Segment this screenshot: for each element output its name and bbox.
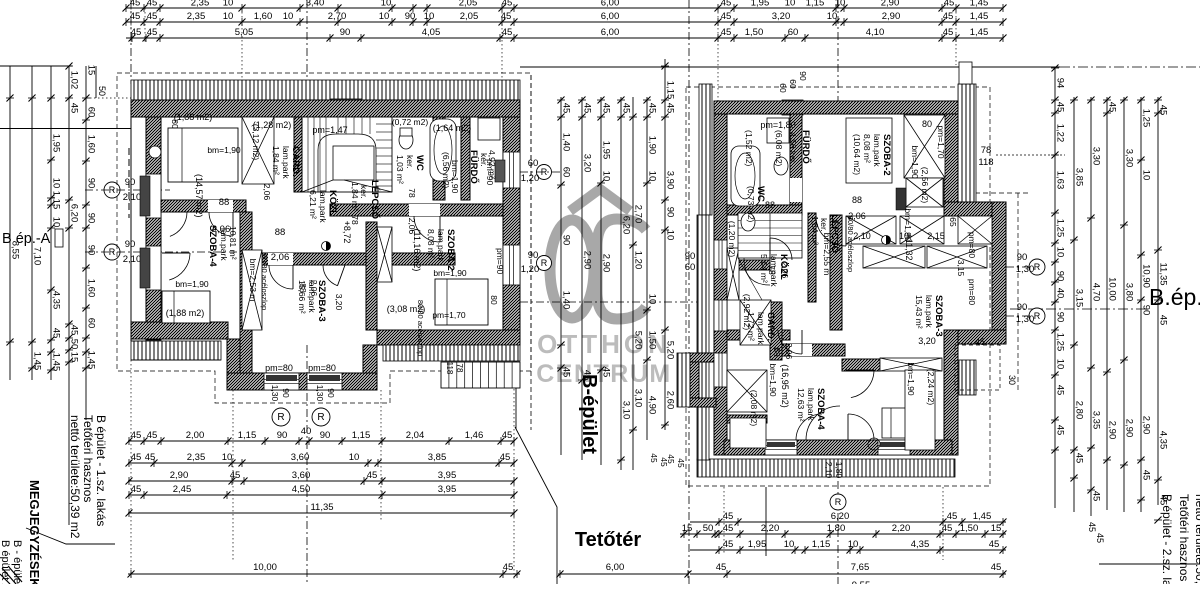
svg-text:3,90: 3,90 (665, 171, 676, 190)
svg-text:15,43 m²: 15,43 m² (914, 295, 924, 329)
svg-text:10: 10 (1055, 359, 1066, 370)
svg-text:7,10: 7,10 (32, 247, 43, 266)
svg-text:90: 90 (528, 250, 539, 261)
svg-text:3,15: 3,15 (956, 260, 966, 277)
svg-text:R: R (1034, 311, 1041, 321)
svg-text:45: 45 (230, 470, 241, 481)
svg-text:45: 45 (1055, 385, 1066, 396)
svg-text:2,90: 2,90 (1141, 416, 1152, 435)
svg-text:88: 88 (219, 197, 230, 208)
svg-text:45: 45 (601, 103, 612, 114)
svg-text:1,22: 1,22 (1055, 124, 1066, 143)
svg-text:1,20: 1,20 (521, 173, 540, 184)
svg-text:90: 90 (1055, 312, 1066, 323)
svg-text:1,25: 1,25 (1141, 109, 1152, 128)
svg-text:8,08 m²: 8,08 m² (862, 134, 872, 163)
svg-text:(11,16 m2): (11,16 m2) (412, 229, 422, 272)
svg-text:1,80: 1,80 (834, 462, 844, 479)
svg-text:bm=2,53 m: bm=2,53 m (248, 259, 258, 302)
svg-text:lam.park: lam.park (872, 134, 882, 167)
svg-text:45: 45 (666, 454, 676, 464)
svg-text:94: 94 (1055, 78, 1066, 89)
svg-text:45: 45 (502, 27, 513, 38)
svg-text:(3,08 m2): (3,08 m2) (387, 304, 426, 314)
svg-text:4,35: 4,35 (51, 291, 62, 310)
svg-text:3,85: 3,85 (428, 452, 447, 463)
svg-text:1,84 m²: 1,84 m² (350, 182, 360, 211)
svg-text:4,56 ker.: 4,56 ker. (788, 132, 798, 165)
svg-text:10: 10 (848, 539, 859, 550)
svg-text:2,05: 2,05 (459, 0, 478, 9)
svg-text:bm=1,90: bm=1,90 (903, 208, 913, 242)
svg-text:LÉPCSŐ: LÉPCSŐ (369, 180, 381, 219)
svg-text:10: 10 (827, 11, 838, 22)
svg-text:6,20: 6,20 (69, 204, 80, 223)
svg-text:(1,88 m2): (1,88 m2) (166, 308, 205, 318)
svg-text:4,70: 4,70 (1091, 283, 1102, 302)
svg-text:2,06: 2,06 (212, 224, 231, 235)
svg-text:45: 45 (1107, 102, 1118, 113)
svg-text:1,95: 1,95 (601, 141, 612, 160)
svg-text:40: 40 (301, 426, 312, 437)
svg-text:45: 45 (1055, 102, 1066, 113)
svg-text:1,20: 1,20 (521, 264, 540, 275)
svg-text:45: 45 (69, 103, 80, 114)
svg-text:(6,56 m2): (6,56 m2) (441, 152, 451, 189)
svg-text:4,35: 4,35 (1158, 431, 1169, 450)
svg-text:MEGJEGYZÉSEK:: MEGJEGYZÉSEK: (27, 480, 42, 584)
svg-text:1,50: 1,50 (745, 27, 764, 38)
svg-text:1,40: 1,40 (561, 133, 572, 152)
svg-text:2,90: 2,90 (881, 0, 900, 9)
svg-text:2,90: 2,90 (882, 11, 901, 22)
svg-text:(0,72 m2): (0,72 m2) (392, 117, 429, 127)
svg-text:(2,56 m2): (2,56 m2) (920, 167, 930, 204)
svg-text:45: 45 (1141, 470, 1152, 481)
svg-text:45: 45 (944, 0, 955, 9)
svg-text:1,40: 1,40 (561, 291, 572, 310)
svg-text:1,46: 1,46 (465, 430, 484, 441)
svg-text:90: 90 (1055, 271, 1066, 282)
svg-text:2,35: 2,35 (187, 452, 206, 463)
svg-text:2,90: 2,90 (601, 254, 612, 273)
svg-text:118: 118 (978, 157, 993, 168)
svg-text:45: 45 (561, 367, 572, 378)
svg-text:5,20: 5,20 (633, 331, 644, 350)
svg-text:3,20: 3,20 (334, 294, 344, 311)
svg-text:88: 88 (275, 227, 286, 238)
svg-text:R: R (1034, 262, 1041, 272)
svg-text:45: 45 (500, 452, 511, 463)
svg-text:10: 10 (379, 11, 390, 22)
svg-text:45: 45 (1158, 315, 1169, 326)
svg-text:2,90: 2,90 (582, 251, 593, 270)
svg-text:7,65: 7,65 (851, 562, 870, 573)
svg-text:1,80: 1,80 (827, 523, 846, 534)
svg-text:45: 45 (721, 27, 732, 38)
svg-text:45: 45 (131, 452, 142, 463)
svg-text:90: 90 (340, 27, 351, 38)
svg-text:45: 45 (1158, 105, 1169, 116)
svg-text:ker.: ker. (405, 155, 415, 169)
svg-text:45: 45 (502, 430, 513, 441)
svg-text:(3,12 m2): (3,12 m2) (251, 124, 261, 161)
svg-text:5,05: 5,05 (235, 27, 254, 38)
svg-text:10: 10 (647, 171, 658, 182)
svg-text:10: 10 (424, 11, 435, 22)
svg-text:2,10: 2,10 (824, 462, 834, 479)
svg-text:6,20: 6,20 (831, 511, 850, 522)
svg-text:1,95: 1,95 (748, 539, 767, 550)
svg-text:(6,08 m2): (6,08 m2) (774, 130, 784, 167)
svg-text:10: 10 (1055, 247, 1066, 258)
svg-text:3,60: 3,60 (292, 470, 311, 481)
svg-text:9,55: 9,55 (852, 580, 871, 584)
svg-text:90: 90 (125, 177, 136, 188)
svg-text:45: 45 (975, 337, 985, 347)
svg-text:45: 45 (1087, 522, 1097, 532)
svg-text:118: 118 (445, 362, 454, 375)
svg-text:45: 45 (147, 11, 158, 22)
svg-text:2,06: 2,06 (271, 252, 290, 263)
svg-text:90: 90 (405, 11, 416, 22)
svg-text:10: 10 (1141, 170, 1152, 181)
svg-text:3,15: 3,15 (1074, 289, 1085, 308)
svg-text:88: 88 (772, 347, 782, 357)
svg-text:(2,08 m2): (2,08 m2) (749, 390, 759, 427)
svg-text:6,00: 6,00 (601, 0, 620, 9)
svg-text:10: 10 (223, 0, 234, 9)
svg-text:4,50: 4,50 (292, 484, 311, 495)
svg-text:1,15: 1,15 (238, 430, 257, 441)
svg-text:lam.park: lam.park (436, 229, 446, 262)
svg-text:B épület - 1.sz. lakás: B épület - 1.sz. lakás (94, 415, 108, 526)
svg-text:pm=80: pm=80 (308, 363, 336, 373)
svg-text:4,10: 4,10 (866, 27, 885, 38)
svg-text:1,50: 1,50 (960, 523, 979, 534)
svg-text:40: 40 (1055, 288, 1066, 299)
svg-text:45: 45 (721, 11, 732, 22)
svg-text:1,95: 1,95 (51, 134, 62, 153)
svg-text:45: 45 (665, 103, 676, 114)
svg-text:90: 90 (86, 178, 97, 189)
svg-text:45: 45 (621, 103, 632, 114)
svg-text:90: 90 (320, 430, 331, 441)
svg-text:R: R (541, 258, 548, 268)
svg-text:88: 88 (852, 195, 862, 205)
svg-text:1,45: 1,45 (970, 11, 989, 22)
svg-text:pm=80: pm=80 (967, 279, 977, 305)
svg-text:(1,52 m2): (1,52 m2) (744, 130, 754, 167)
svg-text:(1,20 m2): (1,20 m2) (727, 221, 737, 258)
svg-text:pm=90: pm=90 (495, 248, 505, 274)
svg-text:45: 45 (601, 367, 612, 378)
svg-text:1,45: 1,45 (970, 27, 989, 38)
svg-text:88: 88 (298, 283, 308, 293)
svg-text:(2,24 m2): (2,24 m2) (926, 369, 936, 406)
svg-text:45: 45 (131, 27, 142, 38)
svg-text:10: 10 (223, 11, 234, 22)
svg-text:10: 10 (349, 452, 360, 463)
svg-text:45: 45 (943, 11, 954, 22)
svg-text:lam.park: lam.park (924, 295, 934, 328)
svg-text:pm=90: pm=90 (485, 159, 495, 185)
svg-text:80: 80 (922, 119, 932, 129)
svg-text:5,20: 5,20 (665, 341, 676, 360)
svg-text:2,45: 2,45 (173, 484, 192, 495)
svg-text:1,60: 1,60 (86, 279, 97, 298)
svg-text:10,00: 10,00 (253, 562, 277, 573)
svg-text:45: 45 (69, 325, 80, 336)
svg-text:(1,64 m2): (1,64 m2) (433, 123, 472, 133)
svg-text:bm=1,90: bm=1,90 (906, 362, 916, 396)
svg-text:B épület - 2.sz. lakás: B épület - 2.sz. lakás (1160, 494, 1174, 584)
svg-text:60: 60 (561, 167, 572, 178)
svg-text:90: 90 (798, 71, 808, 81)
svg-text:90: 90 (561, 235, 572, 246)
svg-text:1,84 m²: 1,84 m² (810, 216, 820, 245)
svg-text:3,80: 3,80 (1124, 283, 1135, 302)
svg-text:1,15: 1,15 (51, 191, 62, 210)
svg-text:3,95: 3,95 (438, 484, 457, 495)
svg-text:2,35: 2,35 (187, 11, 206, 22)
svg-text:45: 45 (1095, 533, 1105, 543)
svg-text:90: 90 (86, 213, 97, 224)
svg-text:(0,73 m2): (0,73 m2) (746, 186, 756, 223)
svg-text:78: 78 (455, 364, 464, 373)
svg-text:1,02: 1,02 (69, 71, 80, 90)
svg-text:1,45: 1,45 (32, 352, 43, 371)
svg-text:60: 60 (86, 318, 97, 329)
svg-text:Tetőtéri hasznos: Tetőtéri hasznos (81, 415, 95, 502)
svg-text:30: 30 (1007, 375, 1017, 385)
svg-text:2,35: 2,35 (191, 0, 210, 9)
svg-text:50: 50 (703, 523, 714, 534)
svg-text:80: 80 (489, 295, 499, 305)
svg-text:1,45: 1,45 (970, 0, 989, 9)
svg-text:B-épület: B-épület (578, 374, 600, 454)
svg-text:2,05: 2,05 (460, 11, 479, 22)
svg-text:15: 15 (682, 523, 693, 534)
svg-text:B - épület 1.sz. lakás: B - épület 1.sz. lakás (11, 540, 23, 584)
svg-text:R: R (317, 412, 324, 423)
svg-text:3,20: 3,20 (772, 11, 791, 22)
svg-text:2,06: 2,06 (309, 280, 319, 297)
svg-text:2,20: 2,20 (892, 523, 911, 534)
svg-text:lam.park: lam.park (806, 388, 816, 421)
svg-text:45: 45 (145, 452, 156, 463)
svg-text:4,35: 4,35 (911, 539, 930, 550)
svg-text:pm=80: pm=80 (967, 232, 977, 258)
svg-text:nettó területe:50,39 m2: nettó területe:50,39 m2 (68, 415, 82, 539)
svg-text:1,15: 1,15 (352, 430, 371, 441)
svg-text:10: 10 (51, 217, 62, 228)
svg-text:4,05: 4,05 (422, 27, 441, 38)
svg-text:FÜRDŐ: FÜRDŐ (468, 150, 480, 184)
svg-text:10: 10 (784, 539, 795, 550)
svg-text:3,10: 3,10 (633, 389, 644, 408)
svg-text:80/80 acéloszlop: 80/80 acéloszlop (260, 254, 269, 310)
svg-text:1,60: 1,60 (86, 135, 97, 154)
svg-text:60: 60 (528, 158, 539, 169)
svg-text:60: 60 (788, 27, 799, 38)
svg-text:3,20: 3,20 (918, 336, 936, 346)
svg-text:78: 78 (767, 265, 777, 275)
svg-text:90: 90 (665, 207, 676, 218)
svg-text:10: 10 (381, 0, 392, 9)
svg-text:Tetőtér: Tetőtér (575, 529, 642, 551)
svg-text:45: 45 (649, 453, 659, 463)
svg-text:45: 45 (947, 511, 958, 522)
svg-text:2,90: 2,90 (1107, 421, 1118, 440)
svg-text:90: 90 (326, 388, 336, 398)
svg-text:6,20: 6,20 (621, 216, 632, 235)
svg-text:45: 45 (131, 430, 142, 441)
svg-text:65: 65 (948, 217, 958, 227)
svg-text:1,63: 1,63 (1055, 171, 1066, 190)
svg-text:nettó területe:50,41 m2: nettó területe:50,41 m2 (1193, 494, 1200, 584)
svg-text:2,70: 2,70 (328, 11, 347, 22)
svg-text:bm=1,90: bm=1,90 (910, 145, 920, 179)
svg-text:6,00: 6,00 (606, 562, 625, 573)
svg-text:45: 45 (502, 0, 513, 9)
svg-text:B épület 2.sz. lakás: B épület 2.sz. lakás (0, 540, 11, 584)
svg-text:15: 15 (991, 523, 1002, 534)
svg-text:45: 45 (676, 458, 686, 468)
svg-text:2,06: 2,06 (407, 218, 417, 235)
svg-text:(16,95 m2): (16,95 m2) (780, 364, 790, 408)
svg-text:4,90: 4,90 (647, 396, 658, 415)
svg-text:2,80: 2,80 (1074, 401, 1085, 420)
svg-text:1,30: 1,30 (1016, 264, 1035, 275)
svg-text:10: 10 (665, 230, 676, 241)
svg-text:60: 60 (788, 79, 798, 89)
svg-text:1,30: 1,30 (315, 385, 325, 402)
svg-text:pm=80: pm=80 (265, 363, 293, 373)
svg-text:45: 45 (989, 539, 1000, 550)
svg-text:3,85: 3,85 (1074, 168, 1085, 187)
svg-text:bm=1,90: bm=1,90 (207, 145, 241, 155)
svg-text:1,95: 1,95 (751, 0, 770, 9)
svg-text:50: 50 (97, 86, 107, 96)
svg-text:78: 78 (407, 188, 417, 198)
svg-text:10: 10 (601, 171, 612, 182)
svg-text:45: 45 (367, 470, 378, 481)
svg-text:3,10: 3,10 (621, 401, 632, 420)
svg-text:bm=1,90: bm=1,90 (175, 279, 209, 289)
svg-text:45: 45 (503, 562, 514, 573)
svg-text:1,60: 1,60 (254, 11, 273, 22)
svg-text:1,45: 1,45 (973, 511, 992, 522)
svg-text:2,06: 2,06 (262, 184, 272, 201)
svg-text:3,95: 3,95 (438, 470, 457, 481)
svg-text:Tetőtéri hasznos: Tetőtéri hasznos (1177, 494, 1191, 581)
svg-text:6,21 m²: 6,21 m² (308, 190, 318, 219)
svg-text:(14,57 m2): (14,57 m2) (194, 174, 204, 218)
svg-text:GARD.: GARD. (766, 312, 776, 341)
svg-text:10: 10 (835, 0, 846, 9)
svg-text:12,63 m²: 12,63 m² (796, 388, 806, 422)
svg-text:45: 45 (561, 103, 572, 114)
svg-text:78: 78 (350, 215, 360, 225)
svg-text:(1,88 m2): (1,88 m2) (174, 112, 213, 122)
svg-text:45: 45 (721, 0, 732, 9)
svg-text:60: 60 (778, 83, 788, 93)
svg-text:8,08 m²: 8,08 m² (426, 229, 436, 258)
svg-text:pm=1,47: pm=1,47 (312, 125, 347, 135)
svg-text:3,40: 3,40 (306, 0, 325, 9)
svg-text:10: 10 (283, 11, 294, 22)
svg-text:2,90: 2,90 (170, 470, 189, 481)
svg-text:90: 90 (86, 245, 97, 256)
svg-text:bm=1,90: bm=1,90 (768, 363, 778, 397)
svg-text:1,03 m²: 1,03 m² (395, 155, 405, 184)
svg-text:45: 45 (582, 103, 593, 114)
svg-text:B ép.-A: B ép.-A (2, 231, 51, 247)
svg-text:6,00: 6,00 (601, 11, 620, 22)
svg-text:80/80 acéloszlop: 80/80 acéloszlop (846, 216, 855, 272)
svg-text:(2,92 m2): (2,92 m2) (742, 294, 752, 331)
svg-text:10: 10 (222, 452, 233, 463)
svg-text:45: 45 (51, 328, 62, 339)
svg-text:3,20: 3,20 (582, 154, 593, 173)
svg-text:15: 15 (86, 65, 97, 76)
svg-text:2,10: 2,10 (123, 192, 142, 203)
svg-text:90: 90 (281, 388, 291, 398)
svg-text:1,15: 1,15 (806, 0, 825, 9)
svg-text:3,30: 3,30 (1091, 147, 1102, 166)
svg-text:10: 10 (647, 294, 658, 305)
svg-text:2,10: 2,10 (123, 254, 142, 265)
svg-text:3,30: 3,30 (1124, 149, 1135, 168)
svg-text:1,20: 1,20 (633, 251, 644, 270)
svg-text:pm=1,70: pm=1,70 (936, 125, 946, 159)
svg-text:90: 90 (125, 239, 136, 250)
svg-text:10: 10 (51, 178, 62, 189)
svg-text:1,15: 1,15 (812, 539, 831, 550)
svg-text:11,35: 11,35 (1158, 262, 1169, 285)
svg-text:1,45: 1,45 (51, 353, 62, 372)
svg-text:pm=1,80: pm=1,80 (760, 120, 795, 130)
svg-text:bm=1,90: bm=1,90 (450, 160, 460, 194)
svg-text:11,35: 11,35 (310, 502, 333, 513)
svg-text:2,06: 2,06 (784, 343, 794, 360)
svg-text:2,04: 2,04 (406, 430, 425, 441)
svg-text:3,60: 3,60 (291, 452, 310, 463)
svg-text:B.ép.-: B.ép.- (1149, 284, 1200, 310)
svg-text:(10,64 m2): (10,64 m2) (852, 134, 862, 175)
svg-text:45: 45 (991, 562, 1002, 573)
svg-text:6,00: 6,00 (601, 27, 620, 38)
svg-text:3,35: 3,35 (1091, 411, 1102, 430)
svg-text:45: 45 (1055, 425, 1066, 436)
svg-text:R: R (277, 412, 284, 423)
svg-text:2,90: 2,90 (1124, 419, 1135, 438)
svg-text:1,84 m²: 1,84 m² (271, 146, 281, 175)
svg-text:15: 15 (69, 352, 80, 363)
svg-text:10,00: 10,00 (1107, 277, 1118, 301)
svg-text:45: 45 (147, 0, 158, 9)
svg-text:lam.park: lam.park (281, 146, 291, 179)
svg-text:1,45: 1,45 (86, 351, 97, 370)
svg-text:60: 60 (86, 107, 97, 118)
svg-text:45: 45 (1074, 453, 1085, 464)
svg-text:pm=1,70: pm=1,70 (432, 310, 466, 320)
svg-text:45: 45 (147, 430, 158, 441)
svg-text:2,70: 2,70 (633, 205, 644, 224)
svg-text:bm=2,55 m: bm=2,55 m (822, 233, 832, 276)
svg-text:1,25: 1,25 (1055, 333, 1066, 352)
